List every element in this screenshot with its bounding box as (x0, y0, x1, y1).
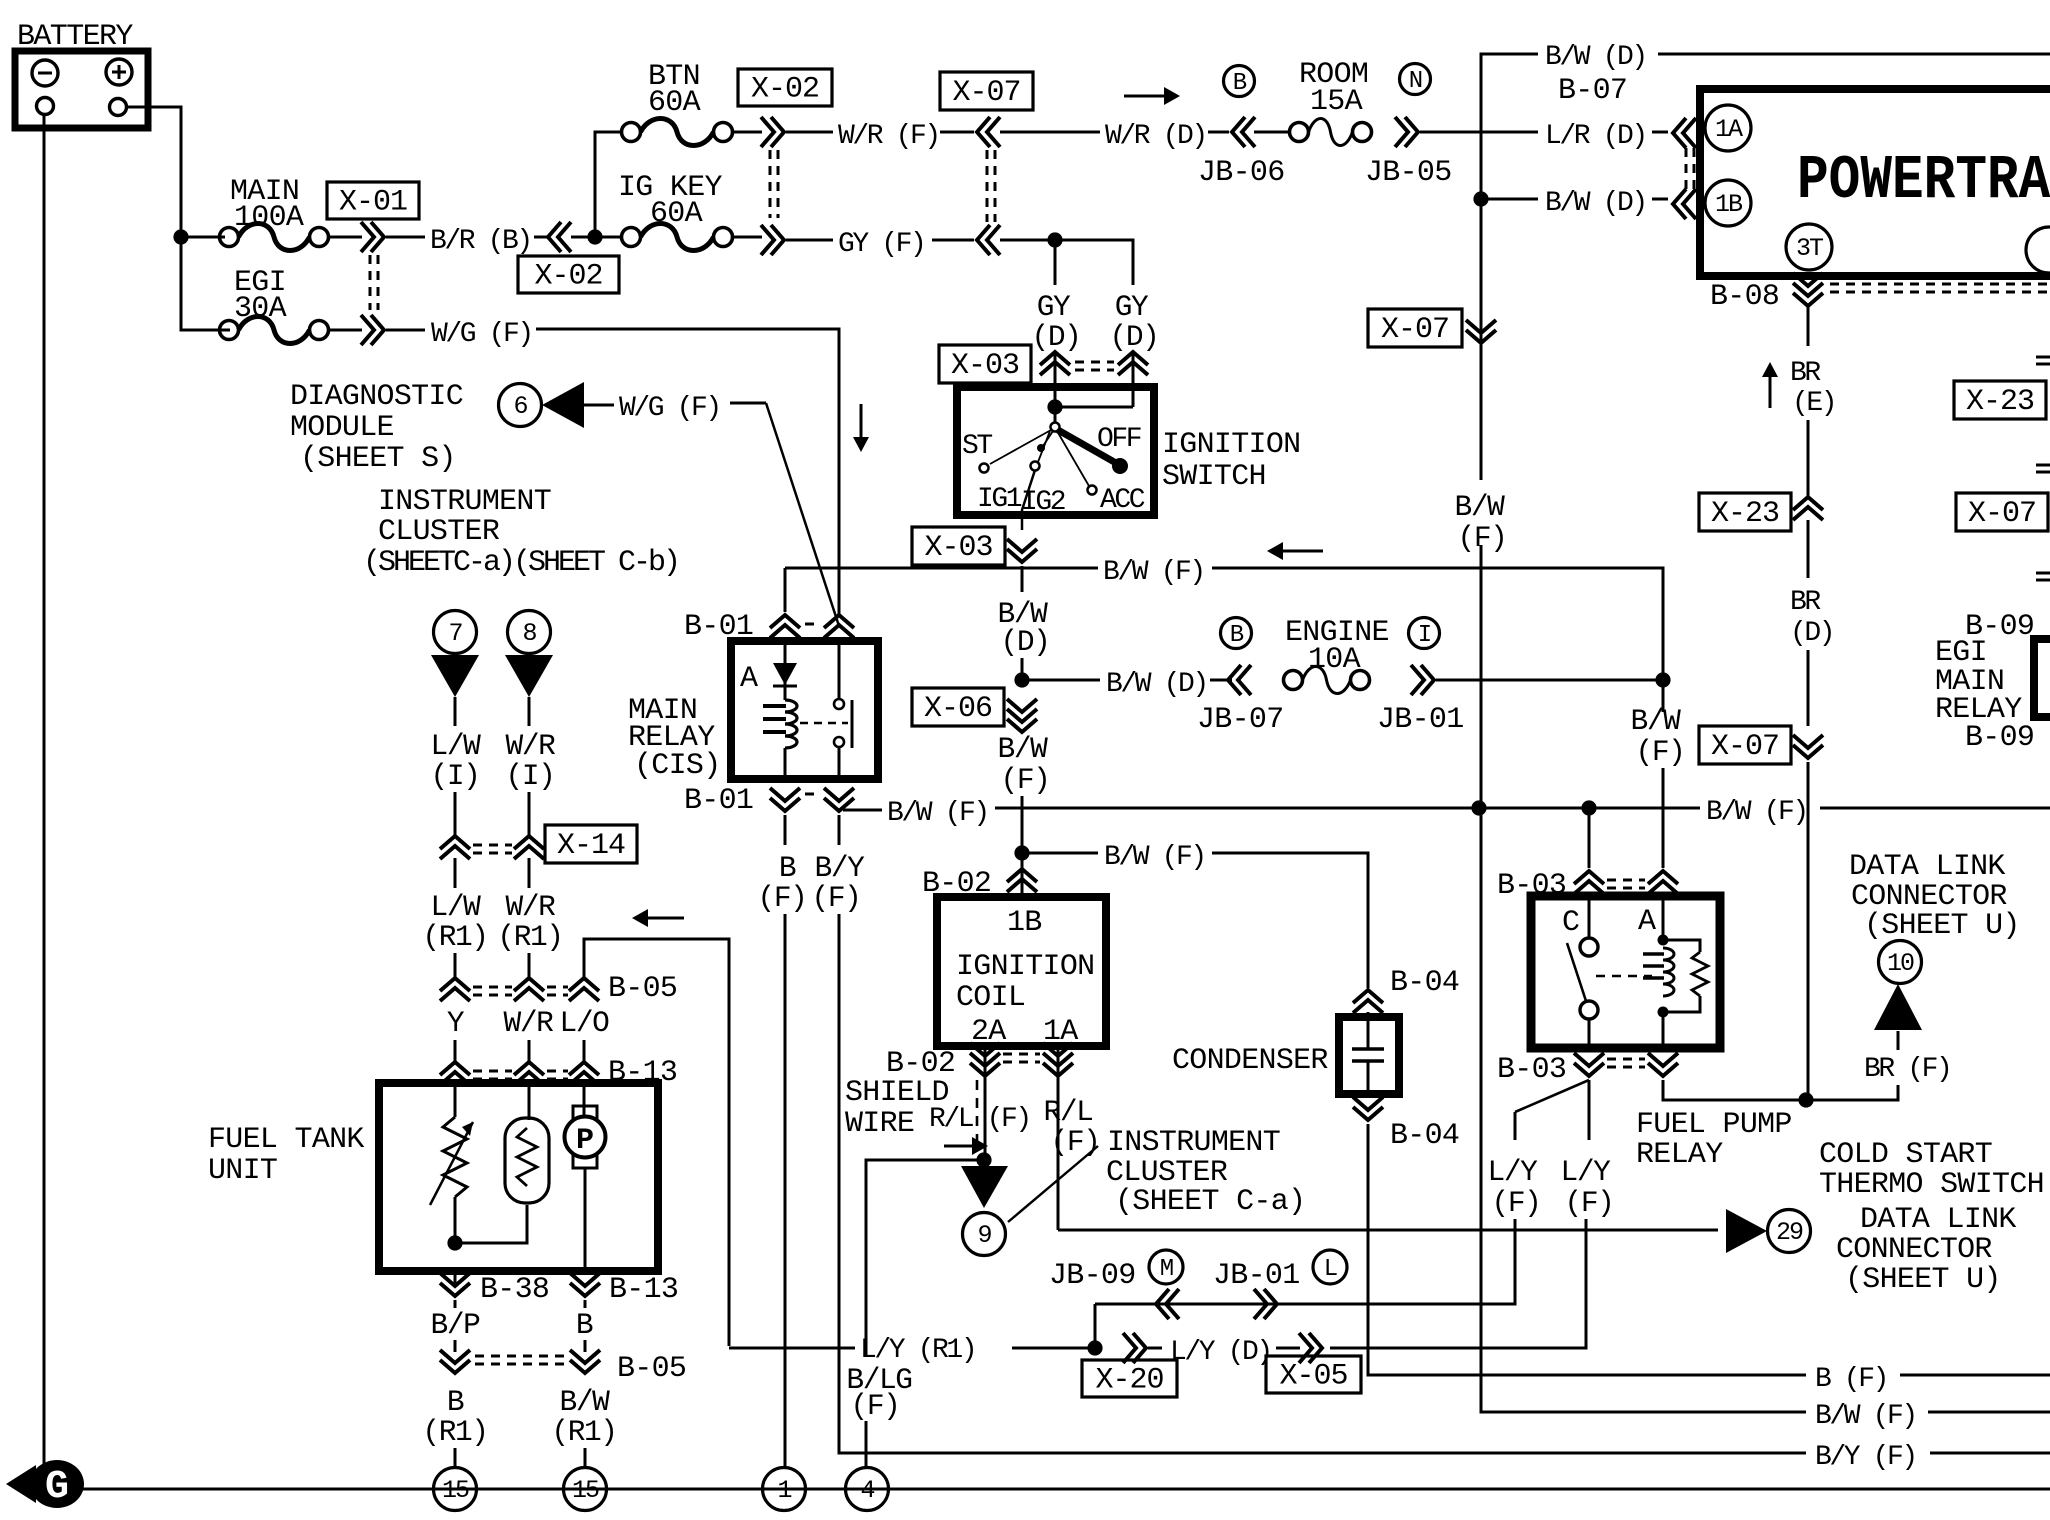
connector powertrain 1B (1673, 189, 1696, 219)
connector B-01 lower (770, 788, 854, 811)
wire GY (D) left to X-03 (1054, 352, 1057, 387)
junction fuel tank (447, 1235, 462, 1250)
main relay contact (800, 645, 852, 775)
label X-07 top (940, 72, 1033, 110)
label JB-06 (1198, 156, 1285, 190)
svg-text:A: A (740, 662, 758, 696)
junction B/W (D) (1014, 672, 1029, 687)
svg-text:IGNITION: IGNITION (956, 950, 1094, 984)
svg-text:L/O: L/O (560, 1006, 610, 1040)
wire 7 down (454, 697, 457, 726)
wire W/R R1 to B-05 (528, 953, 531, 978)
svg-text:B/W: B/W (560, 1385, 611, 1419)
svg-text:L/W: L/W (431, 890, 482, 924)
junction y807 x1479 (1471, 800, 1486, 815)
svg-text:X-05: X-05 (1279, 1360, 1347, 1394)
wire JB-06 to ROOM fuse (1254, 131, 1290, 134)
ignition switch contact IG2 (1031, 431, 1051, 471)
svg-text:ST: ST (962, 431, 992, 462)
wire B (F) edge (1900, 1374, 2050, 1377)
svg-text:60A: 60A (648, 86, 701, 120)
wire L/Y D label (1148, 1347, 1162, 1350)
svg-text:FUEL TANK: FUEL TANK (208, 1123, 364, 1157)
svg-text:W/R: W/R (506, 729, 556, 763)
wire B down (584, 1300, 587, 1352)
svg-text:W/R (D): W/R (D) (1105, 121, 1206, 152)
label X-03 upper (939, 345, 1031, 383)
arrow L/O flow (632, 909, 684, 927)
triangle 29 (1726, 1209, 1767, 1253)
label A pin (1638, 905, 1656, 939)
wire vertical B/W (D) (1480, 132, 1483, 199)
module fuel tank unit (379, 1083, 658, 1271)
label MAIN 100A (230, 175, 304, 235)
connector X-03 lower (1007, 539, 1037, 562)
connector X-06 (1007, 699, 1037, 732)
label X-14 (545, 825, 637, 863)
wire X-14 down left (454, 858, 457, 888)
label X-01 (327, 182, 419, 220)
svg-text:W/G (F): W/G (F) (431, 319, 532, 350)
svg-text:INSTRUMENT: INSTRUMENT (378, 485, 551, 519)
label C pin (1562, 906, 1579, 940)
svg-text:(I): (I) (506, 759, 555, 793)
label B-13 lower (609, 1273, 678, 1307)
connector JB-07 (1228, 665, 1251, 695)
node 8 triangle (505, 655, 553, 697)
label W/R L/O (504, 1006, 610, 1040)
wire B/W (F) vertical lower (1481, 545, 1806, 1412)
svg-text:15: 15 (442, 1476, 469, 1505)
svg-text:L/R (D): L/R (D) (1545, 121, 1646, 152)
svg-text:(D): (D) (1032, 320, 1081, 354)
label W/R (I) (506, 729, 556, 793)
label B-08 (1710, 280, 1779, 314)
node 1 (763, 1468, 806, 1511)
svg-text:(F): (F) (851, 1389, 900, 1423)
label EGI 30A (234, 266, 287, 326)
svg-text:(F): (F) (812, 881, 861, 915)
svg-text:W/G (F): W/G (F) (619, 393, 720, 424)
svg-text:B/W (F): B/W (F) (1103, 557, 1204, 588)
svg-text:B (F): B (F) (1815, 1364, 1887, 1395)
wire 2A down (984, 1046, 987, 1158)
wire 1A to 29 (1058, 1229, 1718, 1232)
label DATA LINK CONNECTOR upper (1849, 850, 2020, 943)
label X-07 left mid (1368, 309, 1462, 347)
junction engine feed (1655, 672, 1670, 687)
svg-text:(F): (F) (1565, 1186, 1614, 1220)
module ignition coil (937, 897, 1106, 1046)
wire BW R1 to node 15 (584, 1448, 587, 1467)
label IGNITION COIL (956, 950, 1094, 1015)
svg-text:B/Y (F): B/Y (F) (1815, 1442, 1916, 1473)
svg-text:DATA LINK: DATA LINK (1849, 850, 2005, 884)
label ROOM 15A (1299, 58, 1368, 119)
label B/W (F) x1663 (1631, 704, 1685, 769)
fuse IG KEY 60A (622, 224, 733, 251)
svg-text:BR (F): BR (F) (1864, 1054, 1950, 1085)
wire W/R to X-07 (940, 131, 974, 134)
wire B/W (D) to label (1022, 679, 1100, 682)
svg-text:B: B (1230, 622, 1244, 649)
wire A out (1663, 1080, 1806, 1100)
svg-text:X-03: X-03 (924, 531, 992, 565)
label Y (447, 1006, 465, 1040)
wire JB-09 link (1094, 1304, 1097, 1348)
svg-text:(R1): (R1) (551, 1415, 616, 1449)
svg-text:B-07: B-07 (1558, 74, 1627, 108)
junction B/W (D) (1473, 191, 1488, 206)
svg-text:B/W: B/W (1631, 704, 1682, 738)
connector X-05 chev (1299, 1333, 1322, 1363)
wire IG KEY to X-02 (733, 236, 762, 239)
svg-text:(D): (D) (1001, 625, 1050, 659)
junction battery feed (173, 229, 188, 244)
connector B-05 upper (440, 978, 599, 1001)
wire X-23 to BR (D) (1807, 520, 1810, 578)
svg-text:(R1): (R1) (422, 920, 487, 954)
svg-text:B-05: B-05 (617, 1352, 686, 1386)
node 7 (434, 611, 477, 654)
label GY (D) right (1110, 290, 1159, 354)
label INSTRUMENT CLUSTER (363, 485, 678, 580)
node 29 (1768, 1210, 1811, 1253)
connector X-07 link (987, 150, 995, 222)
arrow top flow (1124, 87, 1180, 105)
label BR (D) (1790, 587, 1833, 649)
shield dashed (976, 1080, 979, 1152)
connector B-13 lower (570, 1273, 600, 1296)
label W/R (R1) (497, 890, 562, 954)
svg-text:L/Y (R1): L/Y (R1) (860, 1335, 975, 1366)
label IG2 (1021, 487, 1065, 518)
wire B (F) down (784, 815, 787, 845)
svg-text:POWERTRAI: POWERTRAI (1797, 145, 2050, 216)
svg-text:GY (F): GY (F) (838, 229, 924, 260)
label L/Y (R1) (860, 1335, 975, 1366)
arrow feed down (853, 404, 869, 452)
svg-text:B/W: B/W (998, 732, 1049, 766)
label GY (D) left (1032, 290, 1081, 354)
wire X-02 to IG KEY fuse (571, 236, 621, 239)
label X-23 right (1954, 381, 2046, 419)
label B-38 (480, 1273, 549, 1307)
wire GY (D) left drop (1054, 240, 1057, 285)
svg-text:(D): (D) (1790, 618, 1833, 649)
label L/R (D) (1545, 121, 1646, 152)
wire EGI fuse to X-01 (329, 329, 362, 332)
svg-text:X-07: X-07 (1381, 313, 1449, 347)
label B/W (R1) (551, 1385, 616, 1449)
label X-06 (912, 688, 1004, 726)
svg-text:B/W (F): B/W (F) (887, 798, 988, 829)
label X-07 mid right (1699, 726, 1791, 764)
node 15 right (564, 1468, 607, 1511)
label ST (962, 431, 992, 462)
svg-text:ACC: ACC (1100, 485, 1145, 516)
connector X-02 link (770, 150, 778, 218)
svg-text:W/R: W/R (504, 1006, 554, 1040)
wire B/W (F) y568 right (1212, 568, 1663, 680)
wire B/W (F) condenser drop (1212, 853, 1368, 878)
svg-text:B: B (779, 851, 796, 885)
wire X-14 down right (528, 858, 531, 888)
connector B-03 upper (1574, 871, 1678, 894)
wire Y into tank (454, 1084, 457, 1117)
connector X-02 B/R (548, 222, 571, 252)
svg-text:8: 8 (522, 619, 536, 648)
label X-20 (1082, 1360, 1177, 1398)
wire L/Y right upper (1588, 1080, 1591, 1140)
svg-text:29: 29 (1776, 1218, 1803, 1247)
wire MAIN fuse to X-01 (329, 236, 362, 239)
svg-text:COLD START: COLD START (1819, 1138, 1992, 1172)
svg-text:B-13: B-13 (609, 1273, 678, 1307)
connector JB-05 (1395, 117, 1418, 147)
connector JB-09 M (1156, 1289, 1179, 1319)
battery label (17, 20, 133, 54)
svg-text:B/W (D): B/W (D) (1545, 42, 1646, 73)
svg-text:JB-01: JB-01 (1377, 703, 1464, 737)
svg-text:7: 7 (448, 619, 462, 648)
label L/W (I) (431, 729, 482, 793)
label B/W (D) stack (998, 597, 1050, 659)
svg-text:B/W: B/W (1455, 490, 1506, 524)
fuel thermistor (505, 1118, 549, 1203)
svg-text:B: B (1233, 70, 1247, 97)
svg-text:N: N (1409, 68, 1422, 95)
label B/W (F) y807 right (1706, 797, 1807, 828)
label B/W (D) mid (1545, 188, 1646, 219)
label X-07 right (1956, 493, 2048, 531)
wire W/R to B-13 (528, 1040, 531, 1062)
svg-text:X-02: X-02 (751, 73, 819, 107)
label (B) engine fuse (1221, 618, 1252, 650)
wire B-02 to coil (1021, 853, 1024, 900)
label FUEL TANK UNIT (208, 1123, 364, 1188)
wire B/LG to node 4 (865, 1421, 868, 1467)
svg-text:X-14: X-14 (557, 829, 625, 863)
label BR (F) (1864, 1054, 1950, 1085)
svg-text:DATA LINK: DATA LINK (1860, 1203, 2016, 1237)
svg-text:B/P: B/P (431, 1308, 481, 1342)
ignition switch rotor (1051, 407, 1060, 432)
svg-text:1A: 1A (1715, 115, 1743, 144)
svg-text:MODULE: MODULE (290, 411, 394, 445)
label IGNITION SWITCH (1162, 428, 1300, 494)
arrow B/W flow left (1267, 542, 1323, 560)
wire L/O into tank (583, 1084, 586, 1117)
label B (F) (758, 851, 807, 915)
label L/Y (F) left (1488, 1155, 1541, 1220)
connector X-20 chev (1123, 1333, 1146, 1363)
label EGI MAIN RELAY (1935, 636, 2022, 727)
wire B/W (D) top right (1658, 53, 2050, 56)
wire battery negative to ground (43, 115, 46, 1478)
label B-13 upper (608, 1056, 677, 1090)
svg-text:X-03: X-03 (951, 349, 1019, 383)
wire C feed (1588, 808, 1591, 868)
wire W/R to X-14 (528, 792, 531, 836)
svg-text:UNIT: UNIT (208, 1154, 277, 1188)
svg-text:BR: BR (1790, 358, 1821, 389)
wire BR to thermo (1806, 1085, 1898, 1100)
svg-text:(E): (E) (1792, 388, 1835, 419)
label (N) junction box (1400, 64, 1431, 96)
label B-04 lower (1390, 1119, 1459, 1153)
wire L/Y left lower (1095, 1219, 1515, 1304)
svg-text:B/W (D): B/W (D) (1545, 188, 1646, 219)
svg-text:B-08: B-08 (1710, 280, 1779, 314)
svg-text:B: B (447, 1385, 464, 1419)
svg-text:(I): (I) (431, 759, 480, 793)
stub right 2 (2036, 465, 2050, 472)
svg-text:1B: 1B (1007, 906, 1042, 940)
module main relay (731, 641, 878, 779)
wire L/Y right lower (1330, 1219, 1586, 1348)
wire L/W R1 to B-05 (454, 953, 457, 978)
svg-text:(SHEET C-a): (SHEET C-a) (1115, 1185, 1305, 1219)
svg-text:IG2: IG2 (1021, 487, 1065, 518)
svg-text:2A: 2A (971, 1015, 1006, 1049)
wire battery to MAIN fuse (181, 236, 225, 239)
svg-text:3T: 3T (1796, 234, 1824, 263)
wire L/R to powertrain (1652, 131, 1668, 134)
svg-text:B/R (B): B/R (B) (430, 226, 531, 257)
wire B/W (F) y807 edge (1820, 807, 2050, 810)
wire GY to X-07 (932, 239, 974, 242)
ground G symbol (6, 1460, 84, 1510)
connector X-23 (1793, 497, 1823, 520)
connector B-05 lower (440, 1350, 600, 1373)
wire ignition to B/W junction (1021, 566, 1024, 680)
junction GY split (1047, 232, 1062, 247)
label OFF (1097, 424, 1141, 455)
label B-04 upper (1390, 966, 1459, 1000)
label B/LG (F) (846, 1363, 911, 1423)
node 8 (508, 611, 551, 654)
wire B/W (D) top (1481, 54, 1538, 132)
wire BR to X-23 (1807, 420, 1810, 497)
svg-text:9: 9 (977, 1221, 991, 1250)
label X-05 (1266, 1356, 1361, 1394)
connector B-13 upper (440, 1062, 599, 1085)
wire B/W (D) to powertrain (1652, 198, 1668, 201)
svg-text:A: A (1638, 905, 1656, 939)
label B/W (F) x1479 (1455, 490, 1507, 555)
ground bus (82, 1488, 2050, 1491)
svg-text:DIAGNOSTIC: DIAGNOSTIC (290, 380, 463, 414)
connector B-08 link (1830, 284, 2050, 292)
node 10 (1879, 941, 1922, 984)
wire W/G to main relay (536, 329, 839, 616)
label DATA LINK CONNECTOR (SHEET U) lower (1836, 1203, 2016, 1297)
connector B-04 lower (1353, 1097, 1383, 1120)
svg-text:B-04: B-04 (1390, 1119, 1459, 1153)
svg-text:15: 15 (572, 1476, 599, 1505)
wire L to corner (1279, 1303, 1515, 1306)
label B/Y (F) right (1815, 1442, 1916, 1473)
wire engine fuse to junction (1436, 679, 1663, 682)
fuse ENGINE 10A (1284, 667, 1370, 694)
label POWERTRAIN (1797, 145, 2050, 216)
svg-text:6: 6 (513, 392, 527, 421)
wire B/W (D) branch (1481, 198, 1538, 201)
svg-text:OFF: OFF (1097, 424, 1141, 455)
label B (R1) (422, 1385, 487, 1449)
svg-text:X-20: X-20 (1095, 1364, 1163, 1398)
label SHIELD WIRE (845, 1076, 949, 1141)
label COLD START THERMO SWITCH (1819, 1138, 2044, 1202)
label W/G (F) (431, 319, 532, 350)
svg-text:R/L: R/L (1044, 1095, 1093, 1129)
module ignition switch (957, 387, 1154, 515)
module POWERTRAIN (1700, 89, 2050, 276)
ignition switch contact IG1 (1037, 431, 1053, 452)
label (B) junction box (1224, 66, 1255, 98)
wire B-04 to condenser (1367, 1012, 1370, 1017)
pin 3T (1786, 224, 1832, 270)
label GY (F) (838, 229, 924, 260)
node 15 left (434, 1468, 477, 1511)
svg-text:R/L (F): R/L (F) (929, 1104, 1030, 1135)
condenser capacitor (1352, 1021, 1384, 1090)
svg-text:B/W (F): B/W (F) (1104, 842, 1205, 873)
wire X-07 to W/R (D) label (1000, 131, 1100, 134)
svg-text:CLUSTER: CLUSTER (378, 515, 500, 549)
label B-02 upper (922, 867, 991, 901)
connector X-07 W/R (977, 117, 1000, 147)
junction shield wire (976, 1152, 991, 1167)
connector X-01 W/G (361, 315, 384, 345)
stub right 1 (2036, 357, 2050, 364)
connector X-07 vert (1466, 320, 1496, 343)
wire B/W (D) to JB-07 (1210, 679, 1232, 682)
connector X-02 GY (761, 225, 784, 255)
svg-text:30A: 30A (234, 292, 287, 326)
wire condenser to B (F) (1368, 1124, 1806, 1375)
label BTN 60A (648, 60, 701, 120)
connector X-07 BR (1793, 735, 1823, 758)
wire C diagonal (1515, 1080, 1589, 1112)
wire W/R into tank (528, 1084, 531, 1120)
wire GY (D) right to X-03 (1132, 352, 1135, 387)
svg-text:X-07: X-07 (952, 76, 1020, 110)
svg-text:JB-07: JB-07 (1197, 703, 1284, 737)
fuse ROOM 15A (1290, 119, 1372, 146)
svg-text:P: P (576, 1124, 594, 1158)
node 9 triangle (961, 1166, 1008, 1208)
node 4 (846, 1468, 889, 1511)
wire W/R (D) to JB-06 (1208, 131, 1229, 134)
label IG KEY 60A (618, 171, 723, 231)
wire B/Y (F) to bottom (839, 914, 1806, 1453)
junction coil feed (1014, 845, 1029, 860)
svg-text:B-05: B-05 (608, 972, 677, 1006)
svg-text:X-23: X-23 (1966, 385, 2034, 419)
wire 3T to BR (E) (1807, 306, 1810, 346)
wire sender to junction (454, 1197, 457, 1243)
fuse MAIN 100A (220, 224, 329, 251)
label B/R (B) (430, 226, 531, 257)
label L/W (R1) (422, 890, 487, 954)
arrow shield (944, 1137, 988, 1155)
label R/L (F) right (1044, 1095, 1100, 1159)
arrow BR (E) up (1762, 362, 1778, 408)
svg-text:CONNECTOR: CONNECTOR (1836, 1233, 1992, 1267)
wire B/Y (F) down (838, 815, 841, 845)
